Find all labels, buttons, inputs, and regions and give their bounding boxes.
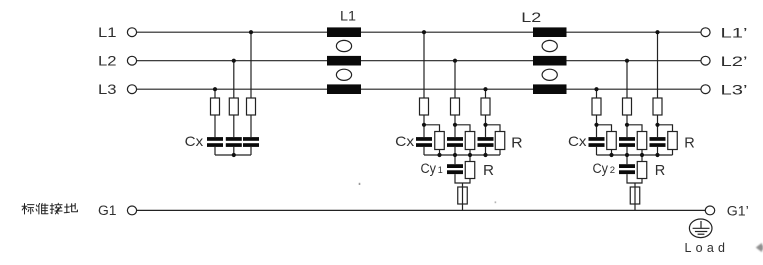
wire 2 to node bbox=[626, 115, 628, 137]
wire bus to Cy2 bbox=[626, 155, 628, 164]
wire 1 to node bbox=[423, 115, 425, 137]
junction bus c bbox=[640, 153, 644, 157]
wire bus to Ry1 bbox=[469, 155, 471, 162]
resistor R (parallel Cy1) bbox=[465, 162, 475, 179]
wire branch C from L3 bbox=[214, 89, 216, 98]
resistor R mid 2 bbox=[465, 132, 475, 150]
svg-text:Cy: Cy bbox=[593, 161, 609, 176]
capacitor Cy1 bbox=[447, 164, 463, 174]
wire Cy1 bottom join bbox=[455, 174, 470, 183]
wire join to series resistor bbox=[634, 183, 636, 210]
svg-text:L2’: L2’ bbox=[721, 54, 748, 69]
resistor box mid 1 bbox=[420, 98, 429, 115]
resistor box right 1 bbox=[592, 98, 601, 115]
resistor box right 2 bbox=[623, 98, 632, 115]
resistor box mid 3 bbox=[481, 98, 490, 115]
resistor R mid 1 bbox=[435, 132, 445, 150]
svg-text:R: R bbox=[511, 135, 523, 152]
wire B box to cap bbox=[233, 115, 235, 137]
wire R3 to bus bbox=[499, 150, 501, 156]
choke L2 bbox=[533, 27, 567, 94]
resistor series ground mid bbox=[458, 187, 468, 204]
resistor box right 3 bbox=[653, 98, 662, 115]
wire branch 1 from L1 bbox=[423, 32, 425, 98]
wire R stub 2 bbox=[627, 125, 642, 132]
wire mid bus bbox=[424, 154, 500, 156]
wire bus to Ry2 bbox=[641, 155, 643, 162]
junction L3 branch C bbox=[213, 87, 217, 91]
junction bus d bbox=[483, 153, 487, 157]
resistor R right 1 bbox=[607, 132, 617, 150]
terminal L2 bbox=[127, 56, 136, 65]
wire A box to cap bbox=[250, 115, 252, 137]
wire R stub 3 bbox=[486, 125, 501, 132]
wire R stub 3 bbox=[658, 125, 673, 132]
wire branch A from L1 bbox=[250, 32, 252, 98]
wire cap1 to bus bbox=[423, 147, 425, 155]
resistor series ground right bbox=[630, 187, 640, 204]
terminal G1 bbox=[127, 206, 136, 215]
junction L1 branch A bbox=[249, 30, 253, 34]
svg-text:Cx: Cx bbox=[185, 133, 204, 149]
wire R1 to bus bbox=[611, 150, 613, 156]
terminal L3' bbox=[701, 85, 710, 94]
wire R3 to bus bbox=[672, 150, 674, 156]
svg-text:R: R bbox=[684, 134, 695, 151]
wire branch 3 from L1 bbox=[657, 32, 659, 98]
junction node 1 bbox=[594, 123, 598, 127]
svg-text:L2: L2 bbox=[98, 53, 117, 68]
terminal L1 bbox=[127, 28, 136, 37]
wire B cap to bus bbox=[233, 147, 235, 155]
resistor box branch B bbox=[229, 98, 238, 115]
wire L1 bbox=[137, 31, 701, 33]
wire right bus bbox=[597, 154, 673, 156]
resistor R right 3 bbox=[668, 132, 678, 150]
wire star bus bbox=[215, 154, 251, 156]
capacitor Cx right 3 bbox=[650, 137, 666, 147]
resistor box branch C bbox=[211, 98, 220, 115]
junction right L3 bbox=[594, 87, 598, 91]
wire branch 2 from L2 bbox=[626, 61, 628, 98]
wire 3 to node bbox=[485, 115, 487, 137]
wire 1 to node bbox=[596, 115, 598, 137]
wire G1 bbox=[137, 209, 706, 211]
svg-text:L3: L3 bbox=[98, 82, 117, 97]
wire cap2 to bus bbox=[626, 147, 628, 155]
wire Cy2 bottom join bbox=[627, 174, 642, 183]
svg-text:Cx: Cx bbox=[395, 133, 414, 149]
wire bus to Cy1 bbox=[454, 155, 456, 164]
svg-text:1: 1 bbox=[438, 165, 443, 175]
junction mid L2 bbox=[453, 59, 457, 63]
resistor R (parallel Cy2) bbox=[637, 162, 647, 179]
capacitor Cx right 1 bbox=[589, 137, 605, 147]
junction mid L1 bbox=[422, 30, 426, 34]
wire L3 bbox=[137, 88, 701, 90]
wire L2 bbox=[137, 60, 701, 62]
svg-text:Cy: Cy bbox=[421, 161, 437, 176]
resistor box mid 2 bbox=[451, 98, 460, 115]
junction bus a bbox=[609, 153, 613, 157]
capacitor Cx bank left C bbox=[207, 137, 223, 147]
speck artifact 2 bbox=[495, 201, 497, 203]
junction L2 branch B bbox=[232, 59, 236, 63]
capacitor Cx mid 1 bbox=[416, 137, 432, 147]
wire cap2 to bus bbox=[454, 147, 456, 155]
terminal G1' bbox=[705, 206, 714, 215]
junction mid L3 bbox=[483, 87, 487, 91]
junction bus a bbox=[437, 153, 441, 157]
junction node 3 bbox=[655, 123, 659, 127]
ground protective earth symbol bbox=[689, 219, 712, 238]
svg-text:R: R bbox=[483, 162, 494, 179]
right filter stage bbox=[592, 32, 677, 210]
junction bus b bbox=[453, 153, 457, 157]
junction node 1 bbox=[422, 123, 426, 127]
wire R stub 1 bbox=[424, 125, 440, 132]
capacitor Cy2 bbox=[619, 164, 635, 174]
choke L1 bbox=[327, 27, 361, 94]
junction bus b bbox=[625, 153, 629, 157]
wire cap3 to bus bbox=[485, 147, 487, 155]
wire A cap to bus bbox=[250, 147, 252, 155]
svg-text:Cx: Cx bbox=[568, 133, 587, 149]
gray marker bottom right bbox=[756, 243, 763, 252]
resistor R mid 3 bbox=[495, 132, 505, 150]
label 标准接地 (standard ground) bbox=[22, 203, 77, 214]
wire cap1 to bus bbox=[596, 147, 598, 155]
terminal L3 bbox=[127, 85, 136, 94]
junction right L1 bbox=[655, 30, 659, 34]
wire C cap to bus bbox=[214, 147, 216, 155]
wire R2 to bus bbox=[469, 150, 471, 156]
svg-text:L1: L1 bbox=[98, 25, 117, 40]
left Cx bank bbox=[211, 32, 256, 155]
wire C box to cap bbox=[214, 115, 216, 137]
terminal L1' bbox=[701, 28, 710, 37]
svg-text:L2: L2 bbox=[521, 10, 541, 25]
svg-text:R: R bbox=[655, 162, 666, 179]
wire R1 to bus bbox=[439, 150, 441, 156]
svg-text:L3’: L3’ bbox=[721, 83, 748, 98]
wire R stub 1 bbox=[597, 125, 612, 132]
wire R stub 2 bbox=[455, 125, 470, 132]
capacitor Cx right 2 bbox=[619, 137, 635, 147]
wire branch 2 from L2 bbox=[454, 61, 456, 98]
junction node 3 bbox=[483, 123, 487, 127]
junction bus d bbox=[655, 153, 659, 157]
junction node 2 bbox=[625, 123, 629, 127]
speck artifact 1 bbox=[359, 183, 361, 185]
junction bus c bbox=[468, 153, 472, 157]
resistor R right 2 bbox=[637, 132, 647, 150]
junction star point bbox=[232, 153, 236, 157]
middle filter stage bbox=[420, 32, 505, 210]
wire branch 1 from L3 bbox=[596, 89, 598, 98]
capacitor Cx mid 2 bbox=[447, 137, 463, 147]
svg-text:Load: Load bbox=[685, 241, 726, 255]
svg-text:G1’: G1’ bbox=[727, 204, 749, 219]
wire branch 3 from L3 bbox=[485, 89, 487, 98]
wire R2 to bus bbox=[641, 150, 643, 156]
capacitor Cx mid 3 bbox=[478, 137, 494, 147]
svg-text:L1’: L1’ bbox=[721, 25, 748, 40]
capacitor Cx bank left A bbox=[243, 137, 259, 147]
svg-text:2: 2 bbox=[610, 165, 615, 176]
svg-text:L1: L1 bbox=[340, 9, 356, 24]
capacitor Cx bank left B bbox=[226, 137, 242, 147]
wire 2 to node bbox=[454, 115, 456, 137]
wire 3 to node bbox=[657, 115, 659, 137]
wire join to series resistor bbox=[462, 183, 464, 210]
junction right L2 bbox=[625, 59, 629, 63]
svg-text:G1: G1 bbox=[98, 203, 117, 218]
junction node 2 bbox=[453, 123, 457, 127]
wire branch B from L2 bbox=[233, 61, 235, 98]
resistor box branch A bbox=[247, 98, 256, 115]
wire cap3 to bus bbox=[657, 147, 659, 155]
terminal L2' bbox=[701, 56, 710, 65]
